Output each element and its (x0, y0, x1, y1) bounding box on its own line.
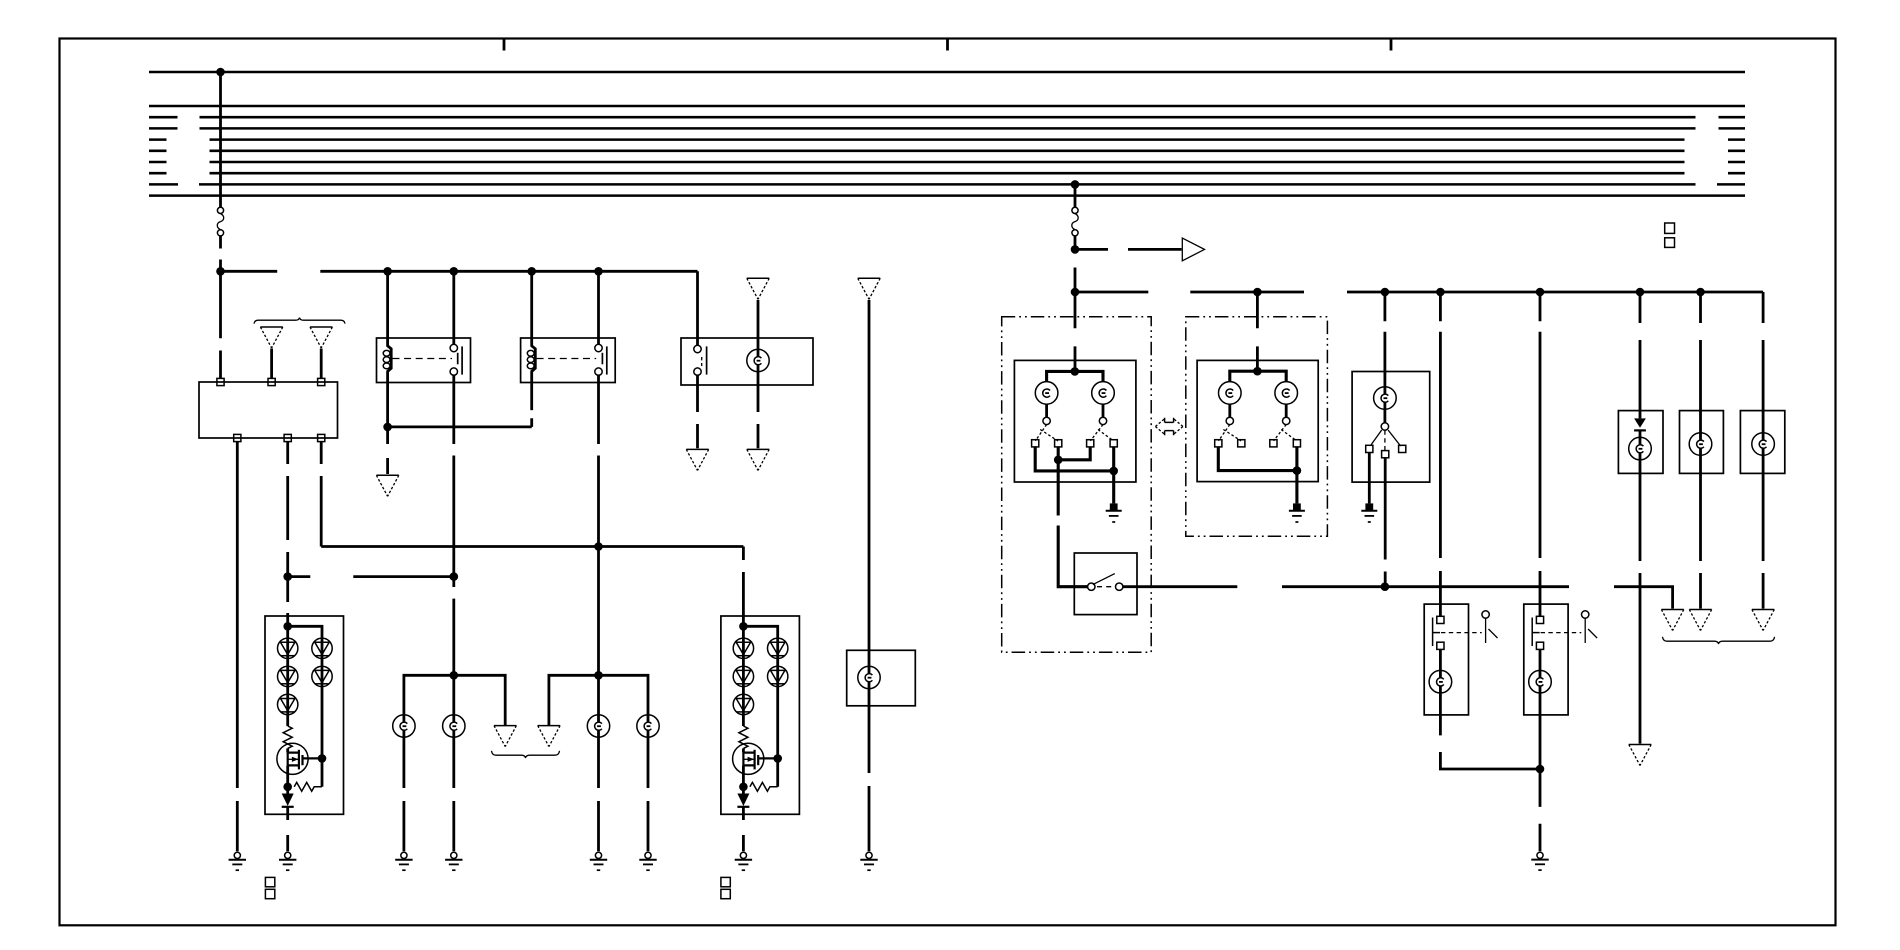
lamp T-BE (1529, 670, 1552, 693)
T-A pin top (1437, 616, 1444, 623)
resistor BR1 (739, 726, 748, 748)
relay K2 link (537, 358, 597, 360)
junction R0 (1071, 245, 1080, 254)
connector squares A (265, 877, 274, 886)
inner box U1 (1014, 360, 1136, 482)
relay K2 contact wire top (597, 338, 600, 344)
junction tap1 (283, 572, 292, 581)
wire U2 branch (1230, 371, 1286, 382)
wire bus to fuse F2 (1074, 184, 1077, 207)
T-A box (1424, 604, 1468, 715)
wire U1 low link (1035, 447, 1114, 471)
LED A1 (278, 638, 298, 658)
diode AD1 (282, 794, 294, 807)
off-page arrow right feed (1182, 238, 1204, 261)
junction A source (283, 783, 292, 792)
wire S5 output (1384, 458, 1387, 587)
relay K2 coil wire (532, 338, 536, 383)
T-A ext bar (1485, 618, 1487, 643)
T-B box (1524, 604, 1568, 715)
ground G4 (595, 852, 601, 858)
bus line 6 (149, 150, 1745, 153)
bus line 3 (149, 116, 1745, 119)
wire C1 pin6 down (320, 442, 323, 547)
lamp U2-L (1219, 382, 1242, 405)
wire manifold 2 (549, 675, 648, 725)
wire bulb 2 to ground (452, 737, 455, 851)
wire K2 output (597, 383, 600, 676)
underbrace M arrows (492, 751, 560, 758)
T-A pin bottom (1437, 642, 1444, 649)
ground G9 (1110, 503, 1118, 510)
wire hazard net (1123, 587, 1673, 609)
MOSFET AQ1 (277, 743, 308, 774)
S4 dashed link (1097, 586, 1115, 588)
wire bulb 2 span (452, 715, 455, 737)
wire K1 output (452, 383, 455, 676)
wire link to lamp box B (742, 547, 745, 617)
wire K2 coil return (530, 383, 533, 411)
wire arrow to lamp E3 (757, 300, 760, 385)
frame tick 2 (946, 39, 949, 51)
fuse F2 (1072, 207, 1078, 213)
relay K1 contact bar (461, 346, 463, 374)
pin C1-2 (268, 378, 275, 385)
T-B dashed link (1541, 632, 1582, 634)
wire U1 branch (1047, 371, 1103, 381)
wire B branch (743, 616, 777, 726)
relay K1 link (393, 358, 453, 360)
bulb E4 (393, 715, 415, 737)
wire feed T-B (1539, 292, 1542, 616)
MOSFET BQ1 (733, 743, 764, 774)
LED B5 (768, 666, 788, 686)
hazard switch box S4 (1074, 553, 1137, 615)
wire T-A down (1440, 715, 1540, 769)
pin U1-L (1043, 417, 1050, 424)
junction R2 (1253, 288, 1262, 297)
relay K2 contact wire bottom (597, 375, 600, 382)
wire bus feed to C1 (219, 271, 222, 378)
wire B right col (776, 638, 779, 787)
lamp T-AE (1429, 670, 1452, 693)
off-page arrow feed lamp E3 (747, 277, 769, 279)
off-page arrow into C1 pin3 (310, 326, 332, 328)
relay K2 contact pin top (595, 344, 602, 351)
bus line 1 (149, 71, 1745, 74)
ground G10 (1293, 503, 1301, 510)
lamp assembly box B (721, 616, 800, 814)
wire A branch (288, 616, 322, 726)
T-A lamp wire (1439, 649, 1442, 715)
overbrace C1 inputs (254, 318, 345, 324)
junction bus-A (216, 68, 225, 77)
junction T out (1536, 765, 1545, 774)
wire arrow to C1 pin3 (320, 349, 323, 379)
LED A4 (312, 638, 332, 658)
pin U2-b (1238, 440, 1245, 447)
relay K1 coil wire (388, 338, 392, 383)
wire U1 U-link (1058, 447, 1090, 460)
license lamp box (847, 650, 916, 706)
wire cross link (321, 545, 743, 548)
wire K1 coil return (386, 383, 389, 427)
wire coil link (388, 418, 532, 427)
pin U2-d (1293, 440, 1300, 447)
wire T-B down (1539, 715, 1542, 851)
junction tap1b (450, 572, 459, 581)
wire coil net to arrow (386, 427, 389, 474)
wire bulb 3 to ground (597, 737, 600, 851)
off-page arrow M1 (494, 725, 516, 727)
wire to relay K2 contact (597, 271, 600, 338)
wire left rail (221, 270, 698, 273)
junction bus-B (1071, 180, 1080, 189)
switch box S3 (681, 338, 813, 385)
T-B lamp wire (1539, 649, 1542, 715)
wire U2 low link (1218, 447, 1297, 471)
bus line 10 (149, 194, 1745, 197)
resistor AR1 (283, 726, 292, 748)
S5 dash center (1384, 430, 1386, 450)
wire manifold 1 (404, 675, 505, 725)
wire to relay K1 contact (452, 271, 455, 338)
wire right rail (1075, 291, 1763, 294)
S3 switch dash (701, 357, 703, 366)
frame tick 3 (1390, 39, 1393, 51)
switch arm U1-L (1035, 425, 1058, 441)
pin U2-L (1226, 417, 1233, 424)
junction U1 gndnet (1109, 467, 1118, 476)
off-page arrow S3 switch (686, 448, 708, 450)
wire bulb 1 to ground (402, 737, 405, 851)
S4 pin left (1088, 583, 1095, 590)
off-page arrow lamp E3 (747, 448, 769, 450)
relay K1 box (377, 338, 471, 383)
ground G7 (740, 852, 746, 858)
wire to off-page right (1075, 248, 1182, 251)
off-page arrow M2 (538, 725, 560, 727)
underbrace T arrows (1663, 637, 1775, 644)
junction L2 (383, 267, 392, 276)
ground G3 (451, 852, 457, 858)
wire B source (742, 765, 745, 793)
diode D2 (1634, 418, 1646, 427)
wire A right col (321, 638, 324, 787)
S3 switch pin bottom (694, 368, 701, 375)
wire bulb 4 to ground (647, 737, 650, 851)
wire B to Q (742, 748, 745, 752)
switch arm U2-L (1219, 425, 1242, 441)
wire A source (286, 765, 289, 793)
relay K2 box (521, 338, 616, 383)
wire to relay K2 coil (530, 271, 533, 338)
relay K1 contact wire bottom (452, 375, 455, 382)
T-B ext arm (1588, 629, 1597, 638)
LED B2 (733, 666, 753, 686)
lamp box RL3 (1740, 411, 1784, 474)
lamp E11 (1629, 437, 1652, 460)
pin U2-R (1283, 417, 1290, 424)
pin U1-b (1055, 440, 1062, 447)
S4 arm (1093, 574, 1115, 585)
junction R5 (1536, 288, 1545, 297)
junction U2 top (1253, 367, 1262, 376)
pin C1-3 (318, 378, 325, 385)
junction U1 top (1071, 367, 1080, 376)
bulb E7 (637, 715, 659, 737)
pin C1-4 (234, 434, 241, 441)
junction R6 (1636, 288, 1645, 297)
off-page arrow feed E9 (858, 277, 880, 279)
pin C1-6 (318, 434, 325, 441)
off-page arrow RL2 (1689, 609, 1711, 611)
ground G8 (866, 852, 872, 858)
junction U2 gndnet (1293, 466, 1302, 475)
junction L3 (450, 267, 459, 276)
wire bulb 4 span (647, 715, 650, 737)
junction L1 (216, 267, 225, 276)
dash-dot enclosure 1 (1002, 317, 1151, 653)
wire U1-R lamp to pin (1102, 404, 1105, 417)
pin U1-d (1110, 440, 1117, 447)
fuse F1 (217, 207, 223, 213)
junction manifold 1 (450, 671, 459, 680)
wire feed RL3 (1762, 292, 1765, 609)
T-B switch tick (1532, 632, 1539, 634)
LED B4 (768, 638, 788, 658)
lamp U1-L (1035, 382, 1058, 405)
T-B switch bar (1531, 618, 1533, 647)
relay K2 armature (601, 353, 603, 365)
bus line 8 (149, 172, 1745, 175)
lamp-switch box S5 (1352, 372, 1430, 483)
ground G6 (285, 852, 291, 858)
connector box C1 (199, 382, 338, 438)
S5 arm right (1388, 430, 1401, 446)
S5 pin b (1399, 445, 1406, 452)
lamp E12 (1689, 433, 1712, 456)
junction cross K2 (594, 542, 603, 551)
LED A5 (312, 666, 332, 686)
S5 pin a (1366, 445, 1373, 452)
wire feed RL2 (1699, 292, 1702, 609)
S3 switch pin top (694, 345, 701, 352)
wire to switch box S3 (696, 271, 699, 345)
frame tick 1 (503, 39, 506, 51)
junction R4 (1436, 288, 1445, 297)
lamp E13 (1752, 433, 1775, 456)
relay K1 coil (383, 350, 390, 356)
relay K2 coil (527, 350, 534, 356)
T-B pin bottom (1536, 642, 1543, 649)
wire manifold 1 drop (452, 675, 455, 715)
junction hazard net (1381, 582, 1390, 591)
wire U2-L lamp to pin (1228, 404, 1231, 417)
S5 arm left (1371, 430, 1382, 445)
relay K1 contact pin bottom (450, 368, 457, 375)
LED B1 (733, 638, 753, 658)
pin U1-a (1032, 440, 1039, 447)
junction L5 (594, 267, 603, 276)
wire feed T-A (1439, 292, 1442, 616)
LED A2 (278, 666, 298, 686)
pin U2-a (1215, 440, 1222, 447)
lamp U1-R (1092, 382, 1115, 405)
ground G2 (401, 852, 407, 858)
inner box U2 (1197, 360, 1318, 481)
wire U1-L lamp to pin (1045, 404, 1048, 417)
pin U2-c (1270, 440, 1277, 447)
bulb E5 (443, 715, 465, 737)
wire U2 to ground (1295, 447, 1298, 504)
lamp box RL1 (1618, 411, 1663, 474)
wire A to box edge (286, 807, 289, 815)
junction B gate (773, 754, 782, 763)
bulb E6 (587, 715, 609, 737)
wire E9 string (868, 300, 871, 851)
ground G5 (645, 852, 651, 858)
off-page arrow coil net (376, 474, 398, 476)
dash-dot enclosure 2 (1186, 317, 1328, 537)
lamp box RL2 (1680, 411, 1724, 474)
wire tap1 link (288, 575, 454, 578)
T-A switch tick (1433, 632, 1440, 634)
junction U1 out (1054, 456, 1063, 465)
wire U1 to ground (1112, 447, 1115, 504)
junction A top (283, 622, 292, 631)
S5 common pin (1381, 423, 1388, 430)
wire feed U2 (1256, 292, 1259, 371)
wire feed S5 (1384, 292, 1387, 423)
pin U1-R (1099, 417, 1106, 424)
relay K1 armature (457, 353, 459, 365)
equivalence arrow (1165, 418, 1174, 436)
relay K1 contact pin top (450, 344, 457, 351)
wire S3 switch down (696, 375, 699, 448)
lamp E3 (747, 349, 769, 371)
LED B3 (733, 694, 753, 714)
junction L4 (527, 267, 536, 276)
wire B to box edge (742, 807, 745, 815)
off-page arrow T1 (1661, 609, 1683, 611)
lamp E9 (858, 666, 880, 688)
wire U1 to hazard switch (1058, 460, 1087, 587)
wire manifold 2 drop (597, 675, 600, 715)
wire S5 to ground (1368, 453, 1371, 504)
wire U2-R lamp to pin (1285, 404, 1288, 417)
T-A ext arm (1489, 629, 1498, 638)
junction R3 (1381, 288, 1390, 297)
wire C1 pin5 down (286, 442, 289, 616)
S3 switch bar (706, 346, 708, 374)
relay K1 contact wire top (452, 338, 455, 344)
off-page arrow into C1 pin2 (260, 326, 282, 328)
wire to relay K1 coil (386, 271, 389, 338)
T-B pin top (1536, 616, 1543, 623)
bus line 9 (149, 183, 1745, 186)
junction R1 (1071, 288, 1080, 297)
diode BD1 (737, 794, 749, 807)
resistor BR2 (750, 782, 778, 791)
wire bulb 1 span (402, 715, 405, 737)
wire feed U1 (1074, 292, 1077, 371)
wire arrow to C1 pin2 (270, 349, 273, 379)
wire D2 to lamp (1639, 430, 1642, 743)
ground G11 (1365, 503, 1373, 510)
junction B top (739, 622, 748, 631)
ground G12 (1537, 852, 1543, 858)
junction A gate (318, 754, 327, 763)
bus line 4 (149, 127, 1745, 130)
junction coil net (383, 423, 392, 432)
switch arm U1-R (1090, 425, 1113, 441)
pin C1-1 (217, 378, 224, 385)
relay K2 contact pin bottom (595, 368, 602, 375)
bus line 5 (149, 138, 1745, 141)
junction R7 (1696, 288, 1705, 297)
pin U1-c (1087, 440, 1094, 447)
wire bulb 3 span (597, 715, 600, 737)
wire lamp E3 down (757, 385, 760, 448)
T-A dashed link (1441, 632, 1482, 634)
wire box A to ground (286, 814, 289, 851)
T-A ext pin (1482, 611, 1489, 618)
T-A switch bar (1432, 618, 1434, 647)
wire fuse F1 to node L1 (219, 236, 222, 271)
wire C1 pin4 to ground (236, 442, 239, 852)
connector squares B (721, 877, 730, 886)
wire bus to fuse F1 (219, 72, 222, 207)
S4 pin right (1116, 583, 1123, 590)
lamp E10 (1374, 387, 1397, 410)
lamp U2-R (1275, 382, 1298, 405)
junction manifold 2 (594, 671, 603, 680)
LED A3 (278, 694, 298, 714)
ground G1 (234, 852, 240, 858)
resistor AR2 (294, 782, 322, 791)
pin C1-5 (284, 434, 291, 441)
T-B ext bar (1584, 618, 1586, 643)
S5 pin c (1382, 451, 1389, 458)
bus line 7 (149, 161, 1745, 164)
wire A to Q (286, 748, 289, 752)
switch arm U2-R (1274, 425, 1297, 441)
wire feed RL1 (1639, 292, 1642, 418)
relay K2 contact bar (606, 346, 608, 374)
wire fuse F2 down (1074, 236, 1077, 292)
off-page arrow RL3 (1752, 609, 1774, 611)
connector squares C (1665, 223, 1675, 233)
junction B source (739, 783, 748, 792)
off-page arrow RL1 (1629, 744, 1651, 746)
lamp assembly box A (265, 616, 344, 814)
bus line 2 (149, 105, 1745, 108)
T-B ext pin (1582, 611, 1589, 618)
wire box B to ground (742, 814, 745, 851)
